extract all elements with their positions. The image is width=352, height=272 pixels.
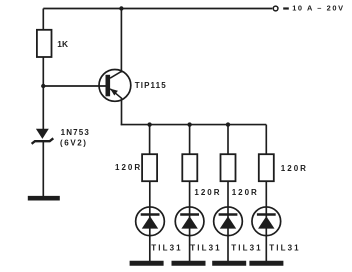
LED D2 TIL31 [136, 207, 165, 236]
svg-text:1N753: 1N753 [61, 128, 90, 137]
terminal input [273, 6, 278, 11]
wire base [43, 85, 106, 87]
svg-text:120R: 120R [194, 188, 221, 197]
wire top rail [43, 8, 272, 10]
resistor R3 120R [182, 154, 197, 181]
ground zener [28, 196, 60, 201]
svg-text:120R: 120R [115, 163, 142, 172]
svg-text:TIL31: TIL31 [269, 244, 300, 253]
wire left drop to 1K [42, 9, 44, 31]
LED D5 TIL31 [252, 207, 281, 236]
svg-text:TIL31: TIL31 [190, 244, 221, 253]
svg-text:TIL31: TIL31 [231, 244, 262, 253]
zener diode D1 1N753 [32, 129, 54, 144]
node bus junction 3 [226, 122, 230, 126]
LED D3 TIL31 [175, 207, 204, 236]
wire zener to ground [42, 141, 44, 197]
node bus junction 1 [147, 122, 151, 126]
wire resistor3 through LED3 to ground [227, 181, 229, 262]
wire branch3 to resistor [227, 125, 229, 155]
ground LED1 [130, 261, 164, 266]
wire resistor4 through LED4 to ground [265, 181, 267, 262]
wire 1K to zener [42, 57, 44, 130]
svg-text:120R: 120R [281, 164, 308, 173]
svg-text:1K: 1K [57, 39, 68, 49]
ground LED3 [212, 261, 246, 266]
wire branch1 to resistor [149, 125, 151, 155]
LED D4 TIL31 [214, 207, 243, 236]
node collector junction [119, 6, 123, 10]
ground LED2 [172, 261, 206, 266]
svg-text:10 A – 20V: 10 A – 20V [292, 4, 344, 13]
wire resistor1 through LED1 to ground [149, 181, 151, 262]
node base junction [41, 84, 45, 88]
wire emitter vertical [121, 98, 123, 125]
resistor R2 120R [142, 154, 157, 181]
svg-text:120R: 120R [232, 188, 259, 197]
svg-text:TIL31: TIL31 [151, 244, 182, 253]
wire branch4 corner [265, 125, 267, 155]
svg-text:(6V2): (6V2) [60, 138, 88, 147]
wire resistor2 through LED2 to ground [189, 181, 191, 262]
resistor R5 120R [259, 154, 274, 181]
wire bus horizontal [121, 124, 267, 126]
resistor R4 120R [221, 154, 236, 181]
node bus junction 2 [187, 122, 191, 126]
svg-text:TIP115: TIP115 [135, 81, 167, 90]
ground LED4 [249, 261, 283, 266]
wire collector vertical [120, 9, 122, 73]
resistor R1 1K [37, 30, 52, 57]
transistor Q1 TIP115 [99, 70, 131, 102]
dash after terminal [283, 7, 289, 9]
wire branch2 to resistor [189, 125, 191, 155]
